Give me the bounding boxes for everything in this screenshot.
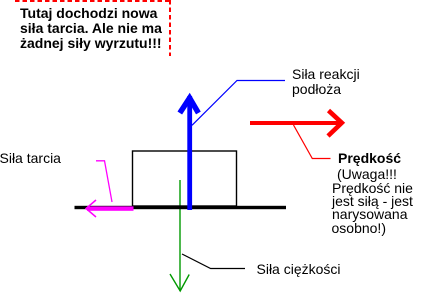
callout line to velocity label (red) [294, 125, 331, 159]
label: friction [0, 151, 61, 166]
callout line to friction label (magenta) [96, 161, 112, 202]
friction arrow (magenta, left) [87, 206, 134, 210]
label: velocity (bold) [338, 151, 401, 166]
label: normal force [292, 67, 360, 97]
callout line to normal-force label (blue) [192, 81, 285, 126]
label: gravity [257, 262, 341, 277]
ground line [75, 206, 287, 209]
annotation dashed border right [169, 0, 171, 56]
label: annotation text [20, 6, 162, 51]
velocity arrow (red, right) [250, 121, 339, 125]
label: velocity note [337, 167, 397, 182]
annotation dashed border top [15, 0, 170, 2]
block (box) on ground [133, 151, 237, 206]
callout line to gravity label (black) [182, 254, 245, 269]
force arrow: normal reaction (blue, up) [187, 96, 192, 210]
force arrow: gravity (green, down) [179, 180, 181, 291]
